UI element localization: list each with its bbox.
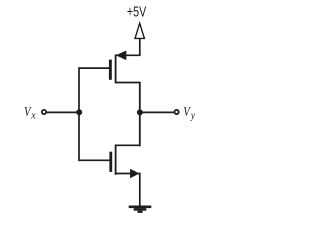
pmos source arrow bbox=[116, 51, 127, 61]
svg-text:x: x bbox=[30, 111, 36, 122]
ground bbox=[129, 206, 152, 213]
nmos channel bbox=[115, 145, 117, 175]
output label Vy bbox=[183, 104, 195, 122]
wire output to terminal bbox=[140, 111, 174, 113]
pmos gate bar bbox=[109, 60, 112, 80]
supply symbol VDD arrow bbox=[135, 23, 144, 38]
wire output bus bbox=[139, 82, 141, 147]
wire gate bus bbox=[78, 67, 80, 161]
pmos drain wire bbox=[116, 82, 140, 84]
pmos gate wire bbox=[79, 67, 109, 69]
wire input to gate bus bbox=[47, 111, 79, 113]
svg-text:y: y bbox=[190, 110, 196, 121]
pmos channel bbox=[115, 54, 117, 83]
node output junction bbox=[137, 109, 143, 115]
wire VDD to PMOS source bbox=[116, 38, 140, 55]
input label Vx bbox=[24, 104, 36, 122]
svg-text:+5V: +5V bbox=[127, 3, 147, 20]
nmos drain wire bbox=[116, 144, 140, 146]
nmos gate wire bbox=[79, 159, 110, 161]
nmos source wire to ground bbox=[116, 174, 140, 207]
nmos source arrow bbox=[130, 169, 139, 179]
svg-text:V: V bbox=[183, 104, 191, 119]
nmos gate bar bbox=[109, 152, 112, 172]
output terminal bbox=[175, 110, 179, 114]
input terminal bbox=[42, 110, 46, 114]
node input junction bbox=[76, 109, 82, 115]
